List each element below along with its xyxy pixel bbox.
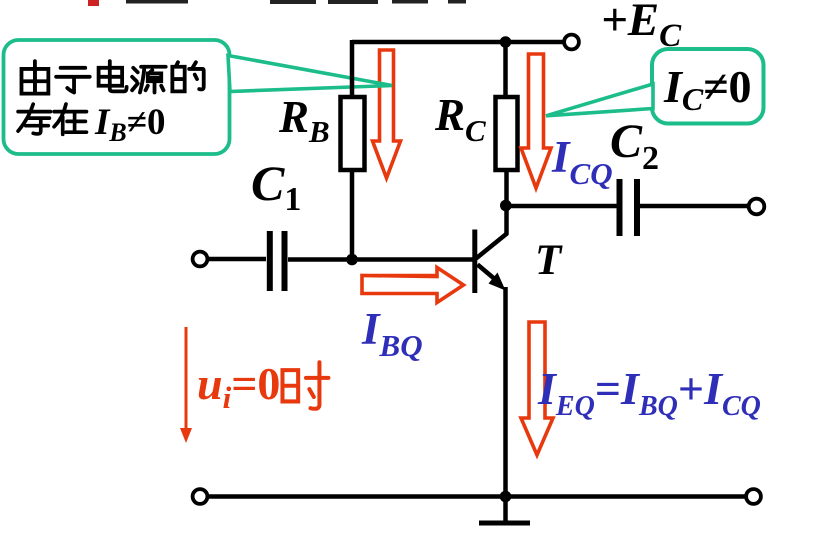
red thin arrow ui xyxy=(180,327,192,443)
node: collector junction dot xyxy=(500,200,512,212)
terminal: input open circle xyxy=(193,252,208,267)
capacitor C2 plates xyxy=(617,179,641,236)
svg-text:T: T xyxy=(535,237,563,284)
svg-text:+EC: +EC xyxy=(601,0,682,54)
存 xyxy=(18,104,50,134)
red arrow: ICQ (vertical outline) xyxy=(521,54,551,188)
svg-text:RC: RC xyxy=(434,90,486,148)
callout bubble: 由于电源的存在IB≠0 xyxy=(4,40,393,154)
svg-text:IC≠0: IC≠0 xyxy=(663,61,752,117)
wire: RC bottom lead / collector vertical xyxy=(504,170,509,234)
ground xyxy=(479,497,530,524)
text line1 由于电源的 (SVG strokes) xyxy=(19,61,203,93)
wire: RC top lead xyxy=(503,42,508,99)
svg-text:ICQ: ICQ xyxy=(551,132,613,191)
在 xyxy=(54,104,86,134)
wire: input to C1 xyxy=(208,257,266,262)
svg-text:IBQ: IBQ xyxy=(361,304,423,363)
的 xyxy=(172,62,203,91)
wire: C2 to output terminal xyxy=(640,204,748,209)
text line2 存在 (SVG strokes) xyxy=(18,104,86,134)
svg-text:IEQ=IBQ+ICQ: IEQ=IBQ+ICQ xyxy=(537,363,761,422)
red arrow: IEQ (vertical outline) xyxy=(521,322,553,455)
wire: bottom rail xyxy=(208,494,746,499)
resistor RB xyxy=(341,97,365,170)
由 xyxy=(19,61,48,93)
transistor T xyxy=(475,230,508,294)
red arrow: IBQ (horizontal outline) xyxy=(362,268,464,303)
svg-text:IB≠0: IB≠0 xyxy=(94,102,166,147)
svg-text:ui=0: ui=0 xyxy=(197,358,280,415)
cropped title remnants at top xyxy=(88,0,466,6)
node: top junction dot xyxy=(500,36,512,48)
wire: emitter vertical xyxy=(503,287,508,496)
capacitor C1 plates xyxy=(267,231,288,291)
源 xyxy=(132,67,166,93)
terminal: output open circle xyxy=(749,199,765,215)
node: emitter-ground junction dot xyxy=(500,491,512,503)
terminal: +Ec open circle xyxy=(564,35,579,50)
red arrow: RB current (vertical outline) xyxy=(373,50,401,178)
terminal: bottom-left open circle xyxy=(193,489,208,504)
terminal: bottom-right open circle xyxy=(746,489,761,504)
svg-text:RB: RB xyxy=(278,92,330,149)
wire: C1 to base xyxy=(288,257,473,262)
wire: RB top lead xyxy=(350,40,355,99)
wire: RB bottom lead xyxy=(350,170,355,260)
svg-text:C1: C1 xyxy=(251,155,301,218)
wire: collector to C2 xyxy=(506,204,617,209)
电 xyxy=(99,61,127,91)
resistor RC xyxy=(496,97,518,170)
svg-text:C2: C2 xyxy=(610,115,659,177)
wire: top rail from RB top-lead to +Ec terminal xyxy=(352,40,564,45)
node: base junction dot xyxy=(346,254,358,266)
callout bubble: IC≠0 xyxy=(546,49,764,124)
于 xyxy=(56,68,90,93)
label 时 (red, SVG strokes) xyxy=(282,362,328,409)
